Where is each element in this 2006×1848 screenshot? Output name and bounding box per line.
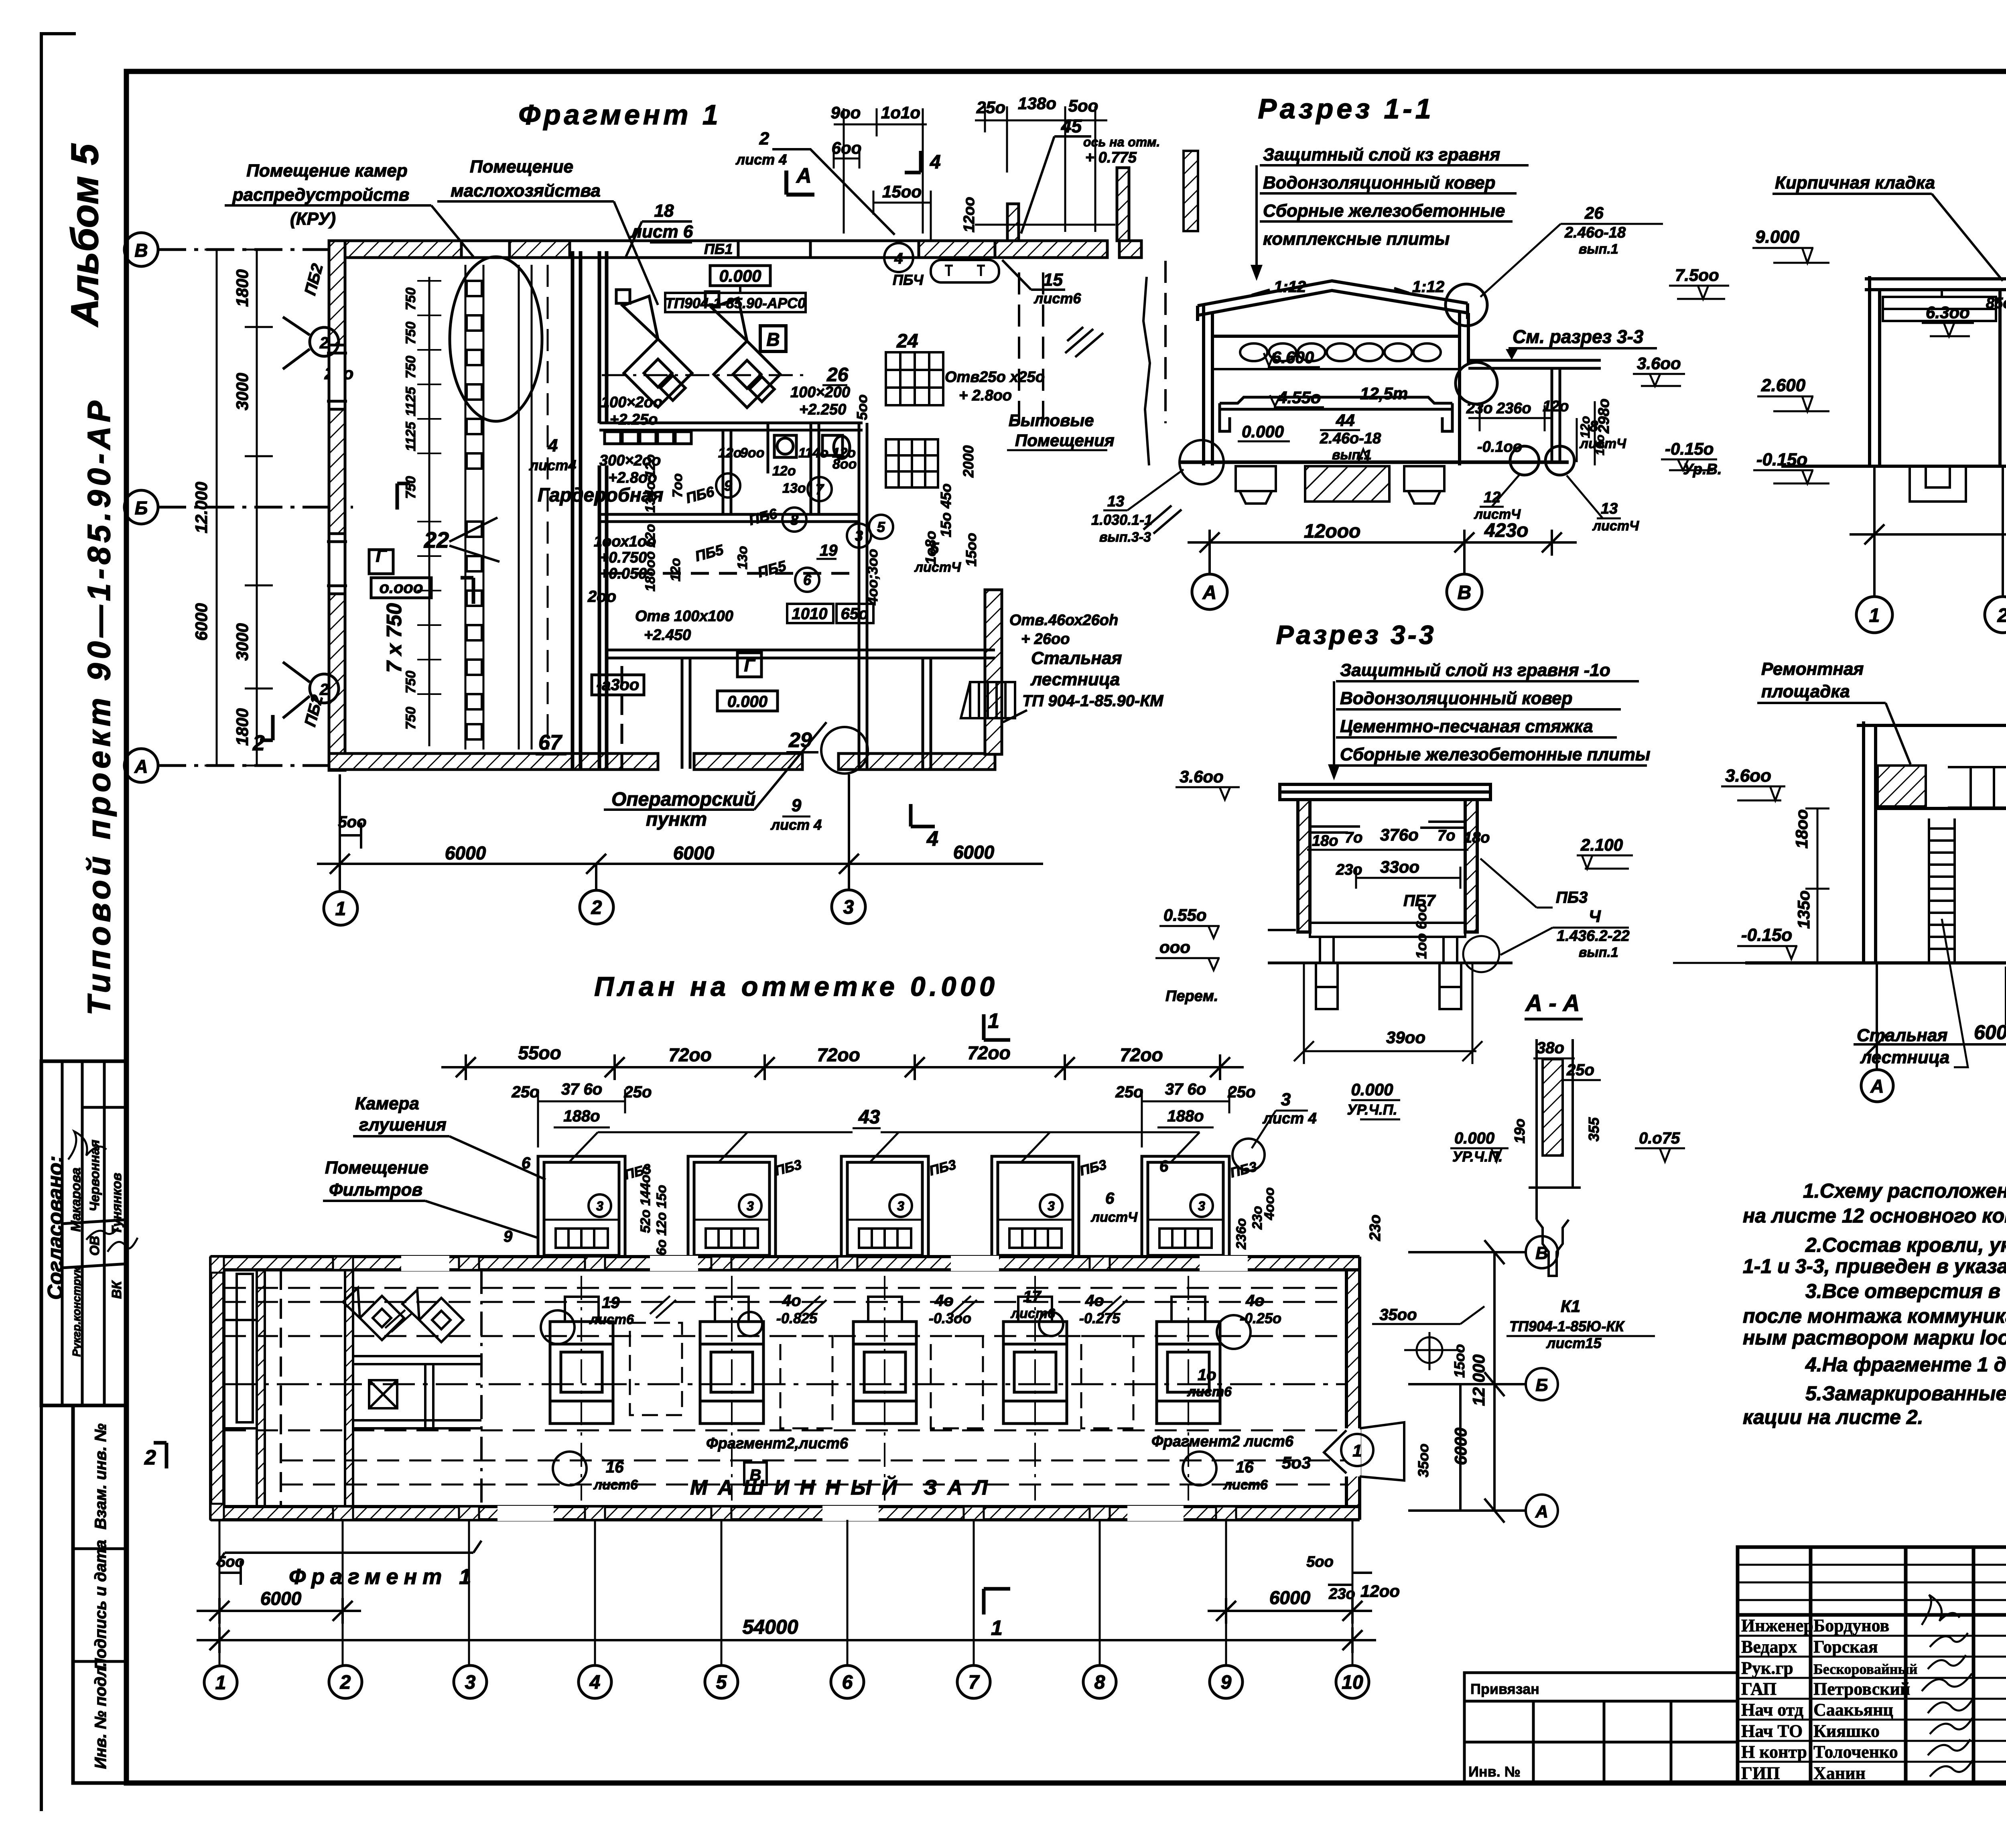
svg-text:после монтажа коммуникаций: после монтажа коммуникаций тщательно зад… (1743, 1305, 2006, 1327)
svg-text:маслохозяйства: маслохозяйства (451, 181, 601, 201)
svg-text:3: 3 (843, 897, 854, 918)
svg-text:72оо: 72оо (668, 1044, 711, 1065)
svg-text:-0.1оо: -0.1оо (1477, 439, 1522, 455)
svg-text:7о: 7о (1437, 827, 1455, 844)
svg-text:23о: 23о (1466, 400, 1492, 417)
svg-text:(КРУ): (КРУ) (290, 209, 336, 229)
svg-text:ПБ6: ПБ6 (684, 483, 717, 506)
svg-text:4: 4 (930, 152, 941, 173)
svg-text:2: 2 (759, 129, 770, 148)
svg-text:100×2оо: 100×2оо (601, 394, 662, 411)
svg-text:52о 144оо: 52о 144оо (638, 1166, 653, 1233)
svg-text:134о 12о: 134о 12о (643, 454, 658, 513)
svg-text:ПБ3: ПБ3 (928, 1157, 958, 1179)
svg-text:+0.050: +0.050 (600, 565, 647, 582)
svg-text:0.55о: 0.55о (1163, 906, 1206, 924)
svg-text:Фрагмент 1: Фрагмент 1 (289, 1565, 477, 1589)
svg-text:лист15: лист15 (1546, 1335, 1602, 1351)
svg-text:0.о75: 0.о75 (1639, 1129, 1680, 1147)
svg-text:пункт: пункт (646, 809, 707, 830)
svg-text:5.Замаркированные на данном: 5.Замаркированные на данном листе элемен… (1805, 1382, 2006, 1405)
svg-text:Взам. инв. №: Взам. инв. № (92, 1424, 110, 1529)
svg-text:5оо: 5оо (217, 1554, 244, 1570)
svg-text:+2.250: +2.250 (799, 401, 846, 418)
svg-text:39оо: 39оо (1386, 1028, 1425, 1047)
svg-text:листЧ: листЧ (1579, 436, 1626, 451)
svg-text:65о: 65о (841, 605, 869, 623)
svg-text:+ 26оо: + 26оо (1021, 631, 1070, 648)
svg-text:В: В (1535, 1243, 1548, 1263)
svg-text:7: 7 (968, 1672, 980, 1693)
svg-text:23о: 23о (1328, 1586, 1355, 1602)
svg-text:лист6: лист6 (589, 1312, 634, 1327)
svg-text:12: 12 (1484, 489, 1500, 506)
svg-text:1:12: 1:12 (1274, 278, 1306, 296)
svg-text:ным раствором марки lоо.: ным раствором марки lоо. (1743, 1326, 2006, 1349)
svg-text:Перем.: Перем. (1165, 988, 1218, 1005)
svg-text:750: 750 (403, 288, 418, 311)
svg-text:лист6: лист6 (1223, 1477, 1268, 1493)
svg-text:3.6оо: 3.6оо (1637, 354, 1681, 373)
svg-text:0.000: 0.000 (1242, 422, 1284, 441)
svg-text:2: 2 (144, 1446, 156, 1469)
svg-text:-0.825: -0.825 (776, 1310, 818, 1326)
svg-text:3: 3 (596, 1199, 603, 1213)
svg-text:Сборные железобетонные: Сборные железобетонные (1263, 201, 1505, 221)
svg-text:кации на листе 2.: кации на листе 2. (1743, 1406, 1923, 1428)
svg-text:Макарова: Макарова (68, 1168, 83, 1232)
svg-text:1: 1 (1869, 605, 1880, 626)
svg-text:4.55о: 4.55о (1277, 388, 1321, 407)
svg-text:Цементно-песчаная стяжка: Цементно-песчаная стяжка (1340, 717, 1593, 736)
svg-text:9.000: 9.000 (1755, 227, 1800, 247)
svg-text:Червонная: Червонная (87, 1140, 102, 1212)
svg-text:43: 43 (858, 1107, 880, 1128)
svg-text:750: 750 (403, 322, 418, 345)
svg-text:1: 1 (988, 1009, 999, 1033)
svg-text:16: 16 (1236, 1458, 1254, 1476)
svg-text:37 6о: 37 6о (1165, 1080, 1206, 1098)
svg-text:1о: 1о (1198, 1366, 1216, 1384)
svg-text:12ооо: 12ооо (1304, 521, 1360, 542)
svg-text:23о: 23о (1336, 861, 1362, 878)
svg-text:Отв.46ох26оh: Отв.46ох26оh (1009, 612, 1118, 629)
svg-text:Горская: Горская (1813, 1637, 1878, 1657)
svg-text:лист 4: лист 4 (735, 151, 787, 168)
svg-text:1: 1 (1352, 1441, 1362, 1460)
svg-text:лист6: лист6 (1010, 1306, 1056, 1321)
svg-text:Альбом 5: Альбом 5 (63, 143, 106, 327)
svg-text:Помещение камер: Помещение камер (246, 161, 407, 181)
svg-text:22: 22 (424, 527, 449, 552)
svg-text:Фрагмент2,лист6: Фрагмент2,лист6 (706, 1435, 849, 1452)
svg-text:6000: 6000 (953, 842, 995, 863)
svg-text:2000: 2000 (960, 445, 977, 478)
svg-text:4оо;3оо: 4оо;3оо (864, 549, 881, 605)
svg-text:54000: 54000 (742, 1616, 798, 1638)
svg-text:глушения: глушения (359, 1115, 447, 1135)
svg-text:Фильтров: Фильтров (329, 1180, 422, 1200)
svg-text:Петровский: Петровский (1813, 1679, 1910, 1699)
svg-text:комплексные плиты: комплексные плиты (1263, 229, 1450, 249)
svg-text:2.600: 2.600 (1761, 376, 1806, 395)
svg-text:-0.25о: -0.25о (1240, 1310, 1281, 1326)
svg-text:4: 4 (548, 436, 558, 455)
svg-text:72оо: 72оо (967, 1042, 1010, 1063)
svg-text:236о: 236о (1496, 400, 1531, 417)
svg-text:Кирпичная кладка: Кирпичная кладка (1775, 173, 1935, 193)
svg-text:Типовой проект 90—1-85.90-АР: Типовой проект 90—1-85.90-АР (81, 397, 117, 1015)
svg-text:3: 3 (897, 1199, 904, 1213)
svg-text:4о: 4о (782, 1292, 801, 1310)
svg-text:13: 13 (1107, 493, 1124, 510)
svg-text:12,5т: 12,5т (1360, 384, 1408, 403)
svg-text:Защитный слой кз гравня: Защитный слой кз гравня (1263, 145, 1500, 164)
svg-text:+2.25о: +2.25о (610, 411, 658, 428)
svg-text:85о: 85о (1986, 295, 2006, 312)
svg-text:лестница: лестница (1860, 1048, 1949, 1067)
svg-text:18оо: 18оо (1792, 809, 1811, 849)
svg-text:9: 9 (1221, 1672, 1232, 1693)
svg-text:-0.275: -0.275 (1079, 1310, 1121, 1326)
svg-text:13: 13 (1601, 500, 1618, 517)
svg-text:Операторский: Операторский (611, 789, 756, 810)
svg-text:Разрез 3-3: Разрез 3-3 (1276, 620, 1436, 650)
svg-text:44: 44 (1336, 411, 1355, 430)
svg-text:Помещение: Помещение (470, 157, 573, 177)
svg-text:7 x 750: 7 x 750 (383, 603, 406, 673)
svg-text:72оо: 72оо (1120, 1044, 1163, 1065)
svg-text:Кияшко: Кияшко (1813, 1721, 1880, 1741)
svg-text:6000: 6000 (1451, 1428, 1470, 1465)
svg-text:6000: 6000 (260, 1588, 302, 1609)
svg-text:Отв25о х25о: Отв25о х25о (945, 369, 1045, 386)
svg-text:А: А (796, 164, 812, 187)
svg-text:6000: 6000 (445, 843, 486, 863)
svg-text:Бордунов: Бордунов (1813, 1616, 1889, 1635)
svg-text:+ 2.8оо: + 2.8оо (959, 387, 1012, 404)
svg-text:6: 6 (842, 1672, 853, 1693)
svg-text:+2.450: +2.450 (644, 627, 691, 644)
svg-text:УР.Ч.П.: УР.Ч.П. (1347, 1101, 1397, 1118)
svg-text:Ведарх: Ведарх (1741, 1637, 1797, 1657)
svg-text:25о: 25о (1115, 1083, 1143, 1101)
svg-text:13о: 13о (782, 481, 806, 496)
svg-text:Защитный слой нз гравня -1о: Защитный слой нз гравня -1о (1340, 660, 1610, 680)
svg-text:0.000: 0.000 (1454, 1129, 1494, 1147)
svg-text:3: 3 (1281, 1090, 1291, 1109)
svg-text:38о: 38о (1537, 1039, 1564, 1057)
svg-text:Водонзоляционный ковер: Водонзоляционный ковер (1340, 688, 1572, 708)
svg-text:4.На фрагменте 1 даны отмет: 4.На фрагменте 1 даны отметки низа отвер… (1805, 1353, 2006, 1376)
svg-text:18о: 18о (1312, 833, 1338, 849)
svg-text:Привязан: Привязан (1470, 1681, 1539, 1697)
svg-text:Нач ТО: Нач ТО (1741, 1721, 1803, 1741)
svg-text:9: 9 (792, 796, 802, 815)
svg-text:6: 6 (522, 1154, 531, 1172)
svg-text:2оо: 2оо (587, 588, 616, 605)
svg-text:2.46о-18: 2.46о-18 (1564, 224, 1626, 241)
svg-text:1125: 1125 (403, 386, 418, 416)
svg-text:лист6: лист6 (1033, 290, 1081, 307)
svg-text:18о: 18о (1464, 829, 1490, 846)
svg-text:15оо: 15оо (882, 182, 922, 201)
svg-text:ТП904-1-85Ю-КК: ТП904-1-85Ю-КК (1509, 1318, 1625, 1334)
svg-text:15о 45о: 15о 45о (938, 483, 954, 537)
svg-text:Фрагмент 1: Фрагмент 1 (518, 99, 721, 130)
svg-text:лист6: лист6 (1187, 1384, 1232, 1399)
svg-text:В: В (750, 1466, 761, 1484)
svg-text:ВК: ВК (109, 1280, 124, 1299)
svg-text:ГИП: ГИП (1741, 1763, 1780, 1783)
svg-text:67: 67 (538, 731, 562, 754)
svg-text:3: 3 (465, 1672, 476, 1693)
svg-text:1800: 1800 (233, 269, 252, 307)
svg-text:12о: 12о (772, 463, 796, 479)
svg-text:Инв. № подл.: Инв. № подл. (92, 1662, 110, 1769)
svg-text:ПБ3: ПБ3 (1556, 889, 1588, 906)
svg-text:ПБ6: ПБ6 (747, 505, 780, 528)
svg-text:19о: 19о (1511, 1119, 1528, 1143)
svg-text:ПБ2: ПБ2 (301, 262, 327, 297)
svg-text:7оо: 7оо (670, 473, 685, 498)
svg-text:1.030.1-1: 1.030.1-1 (1091, 512, 1152, 528)
svg-text:лестница: лестница (1030, 670, 1120, 689)
svg-text:6000: 6000 (673, 843, 715, 863)
svg-text:Разрез 1-1: Разрез 1-1 (1258, 93, 1434, 124)
svg-text:33оо: 33оо (1380, 857, 1419, 876)
svg-text:Помещение: Помещение (325, 1158, 428, 1178)
svg-text:1010: 1010 (792, 605, 828, 623)
svg-text:Камера: Камера (355, 1094, 419, 1113)
svg-text:4о: 4о (1085, 1292, 1104, 1310)
svg-text:7: 7 (816, 481, 824, 498)
svg-text:1:12: 1:12 (1412, 278, 1444, 296)
svg-text:16: 16 (606, 1458, 624, 1476)
svg-text:3.6оо: 3.6оо (1180, 767, 1224, 786)
svg-text:Толоченко: Толоченко (1813, 1742, 1898, 1762)
svg-text:ось на отм.: ось на отм. (1083, 135, 1160, 149)
svg-text:750: 750 (403, 671, 418, 694)
svg-text:135о: 135о (1794, 890, 1813, 929)
svg-text:1.Схему расположения подземн: 1.Схему расположения подземных конструкц… (1803, 1180, 2006, 1202)
svg-text:7о: 7о (1345, 829, 1362, 846)
svg-text:Инв. №: Инв. № (1468, 1763, 1521, 1780)
svg-text:3: 3 (855, 528, 863, 544)
svg-text:5оо: 5оо (854, 394, 870, 420)
svg-text:1125: 1125 (403, 421, 418, 451)
svg-text:12 000: 12 000 (1469, 1355, 1488, 1406)
svg-text:+ 0.775: + 0.775 (1085, 149, 1137, 166)
svg-text:15: 15 (1043, 270, 1063, 290)
svg-text:37 6о: 37 6о (561, 1080, 602, 1098)
svg-text:В: В (766, 329, 780, 350)
svg-text:25о: 25о (512, 1083, 540, 1101)
svg-text:12.000: 12.000 (192, 482, 211, 533)
svg-text:ОВ: ОВ (87, 1236, 102, 1256)
svg-text:ПБ3: ПБ3 (1078, 1157, 1108, 1179)
svg-text:5оо: 5оо (338, 813, 366, 831)
svg-text:6: 6 (1105, 1190, 1115, 1207)
svg-text:Рук.гр: Рук.гр (1741, 1658, 1793, 1678)
svg-text:Н контр: Н контр (1741, 1742, 1807, 1762)
svg-text:ГАП: ГАП (1741, 1679, 1777, 1699)
svg-text:7.5оо: 7.5оо (1675, 266, 1719, 284)
svg-text:2: 2 (340, 1672, 351, 1693)
svg-text:750: 750 (403, 707, 418, 730)
svg-text:18: 18 (654, 201, 674, 221)
svg-text:листЧ: листЧ (1592, 518, 1639, 534)
svg-text:18ооо 12о: 18ооо 12о (643, 524, 658, 591)
svg-text:10: 10 (1342, 1672, 1363, 1693)
svg-text:3: 3 (1198, 1199, 1205, 1213)
svg-text:распредустройств: распредустройств (232, 185, 410, 205)
svg-text:К1: К1 (1561, 1297, 1580, 1316)
svg-text:А - А: А - А (1525, 990, 1580, 1016)
svg-text:ооо: ооо (1159, 938, 1190, 956)
svg-text:355: 355 (1586, 1117, 1602, 1141)
svg-text:8: 8 (1094, 1672, 1105, 1693)
svg-text:В: В (134, 240, 148, 261)
svg-text:6.600: 6.600 (1272, 348, 1314, 367)
svg-text:2.Состав кровли, указанный в: 2.Состав кровли, указанный в выносной на… (1805, 1234, 2006, 1256)
svg-text:25о: 25о (624, 1083, 652, 1101)
svg-text:листЧ: листЧ (1090, 1210, 1138, 1225)
svg-text:См. разрез 3-3: См. разрез 3-3 (1513, 326, 1644, 347)
svg-text:1: 1 (991, 1616, 1003, 1640)
svg-text:вып.1: вып.1 (1579, 945, 1618, 960)
svg-text:ПБ3: ПБ3 (773, 1157, 803, 1179)
svg-text:ПБ1: ПБ1 (704, 241, 733, 257)
svg-text:Стальная: Стальная (1857, 1026, 1947, 1045)
svg-text:лист 4: лист 4 (770, 816, 822, 833)
svg-text:-а3оо: -а3оо (597, 676, 640, 694)
svg-text:ПБЧ: ПБЧ (893, 272, 924, 288)
svg-text:5: 5 (716, 1672, 727, 1693)
svg-text:Согласовано:: Согласовано: (44, 1156, 67, 1300)
svg-text:Ханин: Ханин (1813, 1763, 1866, 1783)
svg-text:15оо: 15оо (963, 533, 979, 567)
svg-text:25о: 25о (1566, 1061, 1594, 1079)
svg-text:19: 19 (820, 542, 838, 559)
svg-text:17: 17 (1023, 1288, 1042, 1306)
svg-text:3.6оо: 3.6оо (1725, 766, 1771, 786)
svg-text:12оо: 12оо (961, 197, 978, 233)
svg-text:6000: 6000 (1269, 1587, 1311, 1608)
svg-text:12о: 12о (668, 558, 683, 582)
svg-text:3000: 3000 (233, 623, 252, 660)
svg-text:вып.1: вып.1 (1579, 242, 1618, 257)
svg-text:Б: Б (1535, 1375, 1548, 1395)
svg-text:А: А (134, 756, 148, 777)
svg-text:Водонзоляционный ковер: Водонзоляционный ковер (1263, 173, 1495, 193)
svg-text:4о: 4о (934, 1292, 954, 1310)
svg-text:298о: 298о (1596, 398, 1612, 434)
svg-text:6оо: 6оо (832, 138, 862, 157)
svg-text:750: 750 (403, 476, 418, 499)
svg-text:Помещения: Помещения (1015, 431, 1115, 450)
svg-text:+0.750: +0.750 (600, 549, 647, 566)
svg-text:6000: 6000 (1974, 1021, 2006, 1044)
svg-text:35оо: 35оо (1415, 1444, 1431, 1477)
svg-text:2.100: 2.100 (1580, 835, 1623, 854)
svg-text:25о: 25о (976, 98, 1005, 117)
svg-text:2: 2 (319, 334, 329, 352)
svg-text:Сборные железобетонные плиты: Сборные железобетонные плиты (1340, 745, 1650, 764)
svg-text:8: 8 (1590, 418, 1598, 435)
svg-text:1: 1 (215, 1672, 226, 1694)
svg-text:4: 4 (926, 827, 938, 851)
svg-text:1: 1 (335, 898, 346, 920)
svg-text:423о: 423о (1484, 520, 1528, 541)
svg-text:А: А (1202, 582, 1217, 603)
svg-text:29: 29 (788, 729, 812, 752)
svg-text:6: 6 (803, 572, 812, 588)
svg-text:лист4: лист4 (529, 457, 576, 473)
svg-text:5оо: 5оо (1068, 96, 1098, 115)
svg-text:26: 26 (1584, 203, 1604, 222)
svg-text:4ооо: 4ооо (1262, 1187, 1277, 1220)
svg-text:вып.3-3: вып.3-3 (1099, 530, 1151, 545)
svg-text:0.000: 0.000 (719, 266, 761, 285)
svg-text:8: 8 (790, 512, 798, 528)
svg-text:1оо 6оо: 1оо 6оо (1413, 904, 1429, 959)
svg-text:3000: 3000 (233, 373, 252, 410)
svg-text:188о: 188о (563, 1107, 600, 1125)
svg-text:55оо: 55оо (518, 1042, 561, 1063)
svg-text:Подпись и дата: Подпись и дата (92, 1540, 110, 1670)
svg-text:Стальная: Стальная (1031, 648, 1122, 668)
svg-text:2: 2 (1997, 605, 2006, 626)
svg-text:6: 6 (1159, 1158, 1169, 1175)
svg-text:Б: Б (135, 498, 148, 518)
svg-text:5о3: 5о3 (1282, 1453, 1311, 1472)
svg-text:9оо: 9оо (740, 445, 764, 461)
svg-text:лист6: лист6 (593, 1477, 638, 1493)
svg-text:26: 26 (826, 364, 849, 386)
svg-text:Тунянков: Тунянков (109, 1173, 124, 1235)
svg-text:План на отметке 0.000: План на отметке 0.000 (594, 971, 999, 1002)
svg-text:В: В (1458, 582, 1472, 603)
svg-text:Бескоровайный: Бескоровайный (1813, 1661, 1917, 1677)
svg-text:188о: 188о (1167, 1107, 1204, 1125)
svg-text:площадка: площадка (1761, 682, 1850, 701)
svg-text:5: 5 (877, 519, 885, 535)
svg-text:6.3оо: 6.3оо (1926, 303, 1970, 322)
svg-text:Ч: Ч (1589, 907, 1601, 926)
svg-text:о.ооо: о.ооо (380, 579, 423, 597)
svg-text:2: 2 (252, 731, 265, 755)
svg-text:12о: 12о (718, 445, 742, 461)
svg-text:ПБ5: ПБ5 (693, 541, 726, 565)
svg-text:45: 45 (1061, 116, 1082, 136)
svg-text:-0.15о: -0.15о (1665, 439, 1714, 458)
svg-text:4о: 4о (1245, 1292, 1265, 1310)
svg-text:9: 9 (504, 1228, 513, 1245)
svg-text:5оо: 5оо (1306, 1554, 1334, 1570)
svg-text:24: 24 (896, 331, 918, 352)
svg-text:13о: 13о (735, 546, 750, 570)
svg-text:3: 3 (1048, 1199, 1055, 1213)
svg-text:100×200: 100×200 (790, 384, 850, 401)
svg-text:4: 4 (894, 250, 903, 267)
svg-text:8оо: 8оо (832, 457, 857, 472)
svg-text:1.436.2-22: 1.436.2-22 (1557, 928, 1630, 944)
svg-text:Рукгр.конструк: Рукгр.конструк (70, 1267, 83, 1357)
svg-text:19: 19 (602, 1294, 620, 1312)
svg-text:ТП904-1-85.90-АРС0: ТП904-1-85.90-АРС0 (665, 295, 806, 311)
svg-text:А: А (1870, 1076, 1884, 1097)
